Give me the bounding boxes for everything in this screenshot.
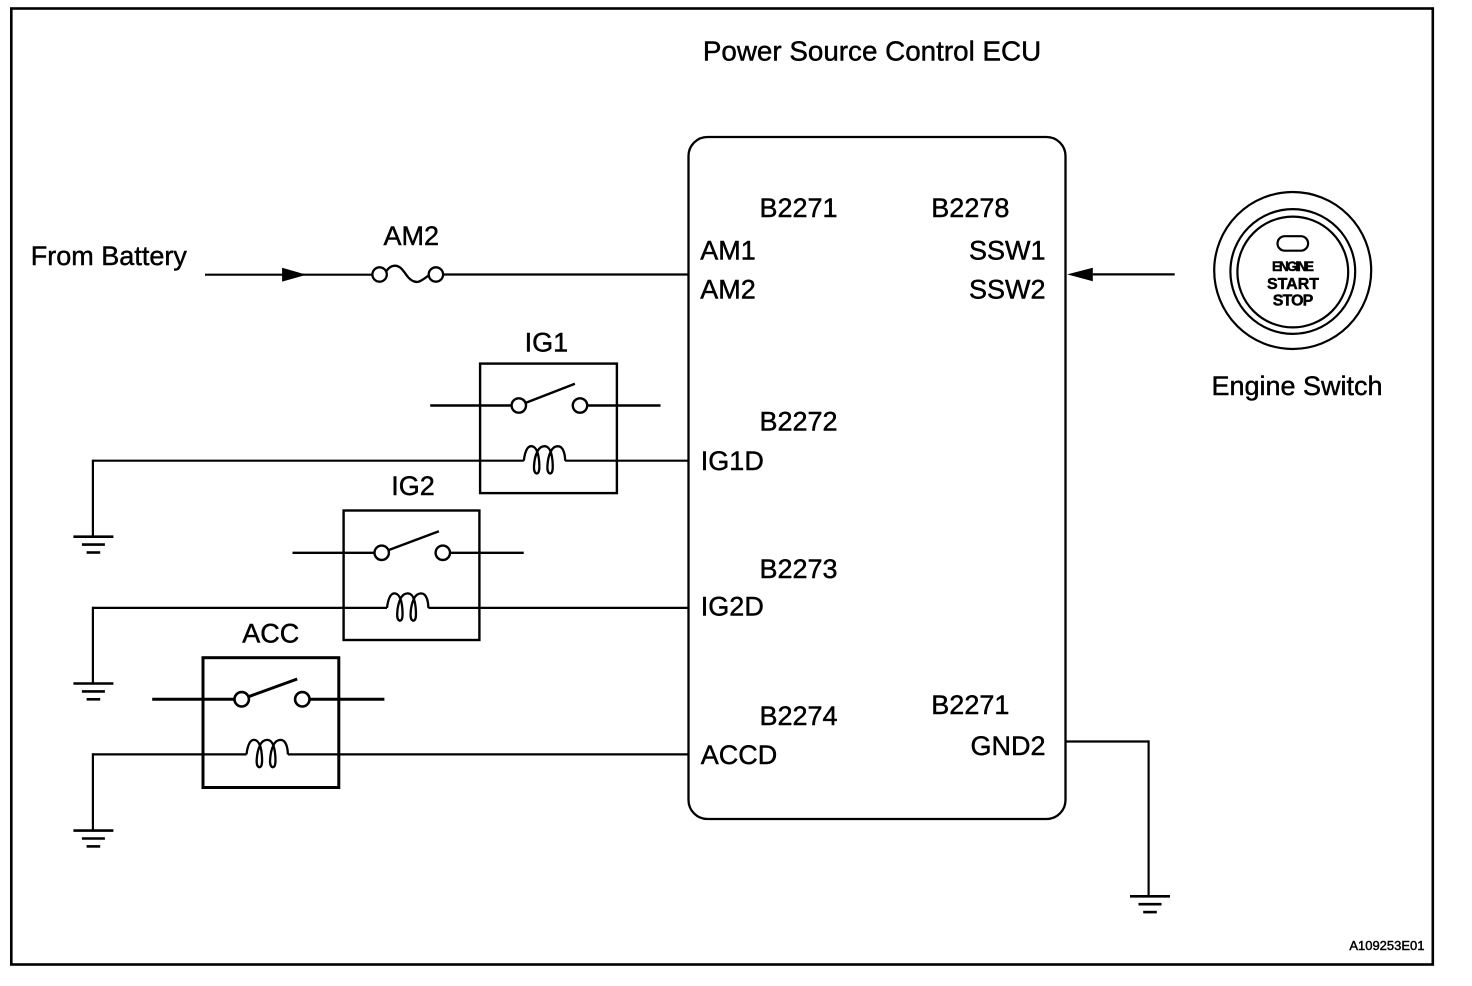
svg-text:B2273: B2273 [760, 554, 838, 584]
svg-text:ACC: ACC [242, 619, 299, 649]
svg-text:B2271: B2271 [931, 690, 1009, 720]
svg-text:STOP: STOP [1273, 292, 1314, 309]
svg-text:IG2D: IG2D [701, 592, 764, 622]
svg-text:ACCD: ACCD [701, 740, 778, 770]
svg-text:Engine Switch: Engine Switch [1211, 371, 1382, 401]
svg-text:SSW2: SSW2 [969, 275, 1046, 305]
svg-text:A109253E01: A109253E01 [1349, 938, 1424, 953]
svg-text:B2274: B2274 [760, 701, 838, 731]
svg-text:IG1: IG1 [525, 328, 569, 358]
svg-text:ENGINE: ENGINE [1272, 259, 1314, 274]
svg-text:B2278: B2278 [931, 193, 1009, 223]
svg-text:START: START [1267, 276, 1319, 293]
svg-text:AM2: AM2 [700, 275, 756, 305]
svg-text:B2271: B2271 [760, 193, 838, 223]
svg-text:From Battery: From Battery [31, 241, 188, 271]
svg-text:GND2: GND2 [970, 731, 1045, 761]
svg-text:IG1D: IG1D [701, 446, 764, 476]
svg-text:B2272: B2272 [760, 406, 838, 436]
svg-text:AM2: AM2 [384, 221, 440, 251]
svg-text:IG2: IG2 [391, 471, 435, 501]
svg-text:AM1: AM1 [700, 235, 756, 265]
svg-text:Power Source Control ECU: Power Source Control ECU [703, 35, 1041, 66]
svg-text:SSW1: SSW1 [969, 235, 1046, 265]
